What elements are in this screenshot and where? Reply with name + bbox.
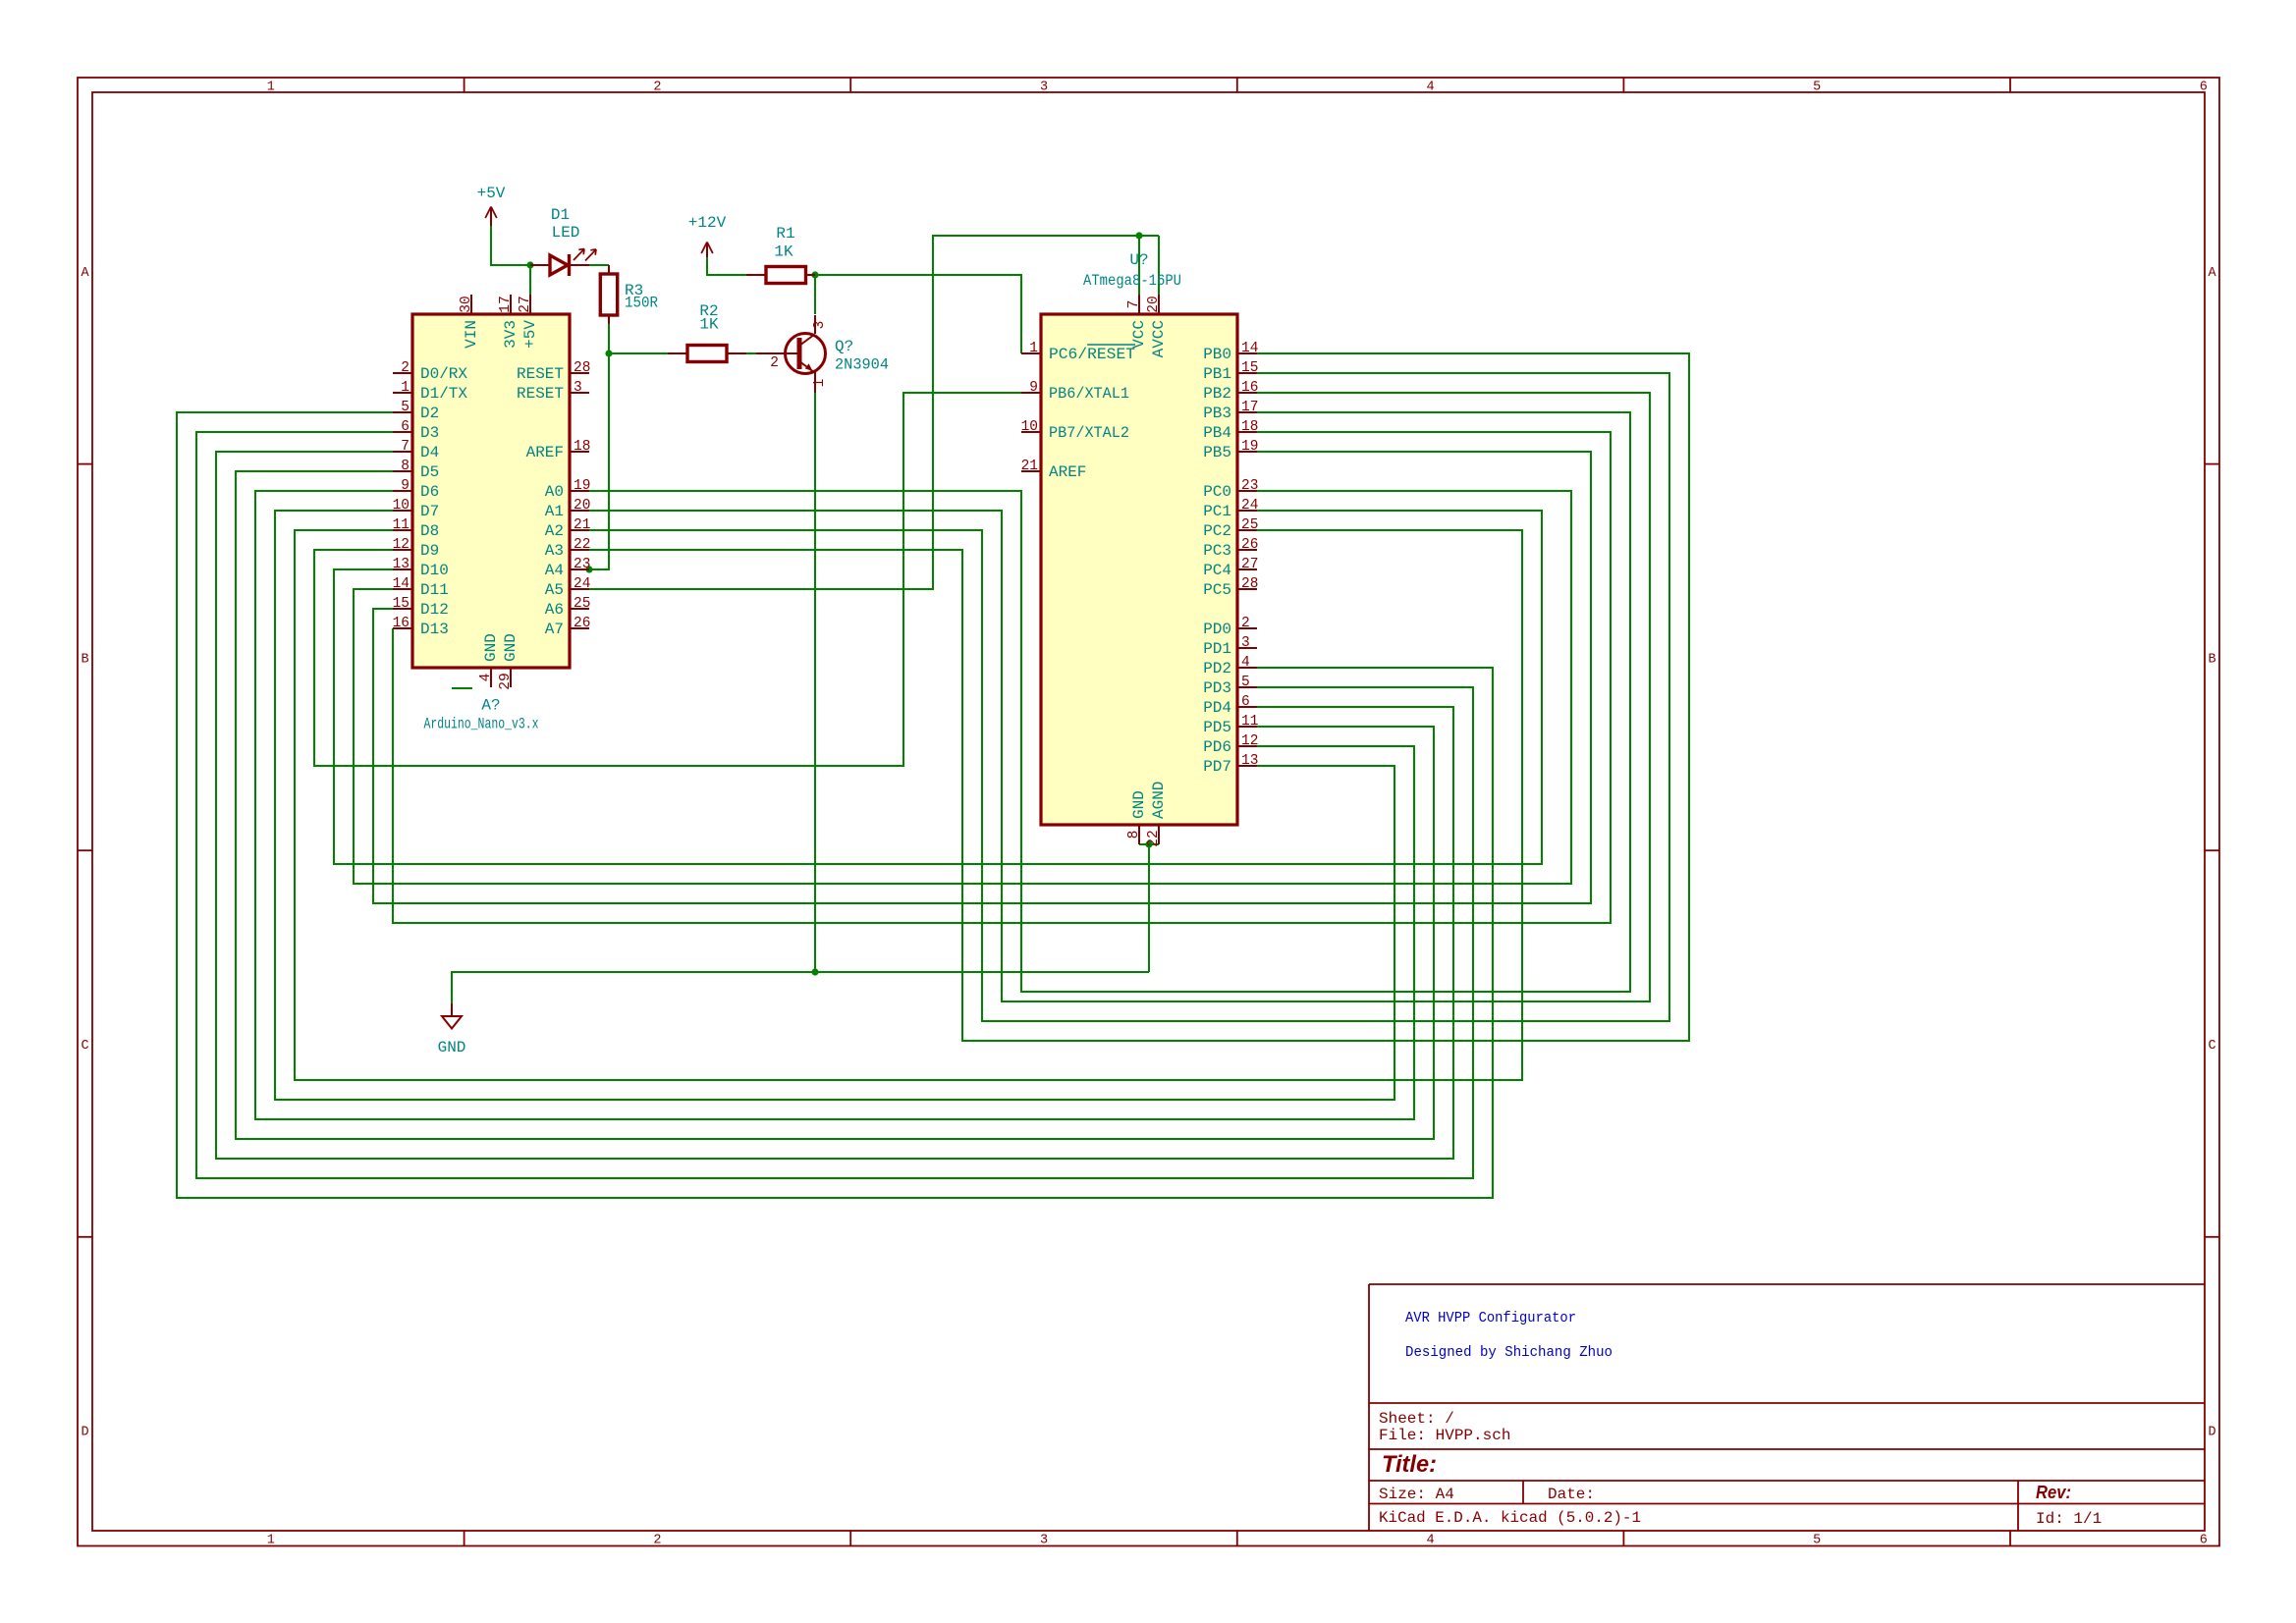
pin 17 3V3 [498, 295, 519, 349]
pin 17 PB3 [1203, 400, 1258, 422]
pin 3 RESET [517, 380, 589, 403]
svg-text:VCC: VCC [1130, 320, 1148, 349]
svg-text:27: 27 [1241, 557, 1258, 572]
wire junction to R2 left [609, 352, 668, 354]
svg-text:27: 27 [518, 296, 533, 312]
svg-text:Q?: Q? [835, 338, 853, 355]
svg-text:4: 4 [1427, 1534, 1435, 1548]
svg-text:PD5: PD5 [1203, 719, 1231, 736]
svg-text:24: 24 [574, 576, 590, 592]
svg-text:Rev:: Rev: [2036, 1483, 2071, 1502]
pin 25 A6 [545, 596, 591, 619]
pin 2 PD0 [1203, 616, 1257, 638]
svg-text:Arduino_Nano_v3.x: Arduino_Nano_v3.x [424, 716, 539, 733]
svg-text:13: 13 [1241, 753, 1258, 769]
wire net A3-PB0 [589, 353, 1689, 1041]
pin 4 PD2 [1203, 655, 1257, 677]
svg-text:+5V: +5V [521, 320, 539, 349]
svg-text:1: 1 [267, 1534, 275, 1548]
pin 18 PB4 [1203, 419, 1258, 442]
wire stub near Arduino GND [452, 687, 472, 689]
svg-text:D13: D13 [420, 621, 449, 638]
svg-text:A3: A3 [545, 542, 564, 560]
svg-text:PD7: PD7 [1203, 758, 1231, 776]
wire net D3-PD3 [196, 432, 1473, 1178]
svg-text:14: 14 [393, 576, 410, 592]
svg-text:PC2: PC2 [1203, 522, 1231, 540]
pin 18 AREF [526, 439, 591, 461]
svg-text:16: 16 [1241, 380, 1258, 396]
svg-text:B: B [81, 652, 88, 667]
svg-text:18: 18 [574, 439, 590, 455]
svg-text:ATmega8-16PU: ATmega8-16PU [1083, 272, 1181, 290]
svg-text:6: 6 [1241, 694, 1250, 710]
svg-text:Sheet: /: Sheet: / [1379, 1410, 1454, 1428]
svg-text:15: 15 [1241, 360, 1258, 376]
pin 1 PC6/RESET [1021, 341, 1135, 363]
svg-text:RESET: RESET [517, 385, 564, 403]
wire junction to pin 27 +5V [529, 265, 531, 295]
svg-text:3: 3 [812, 321, 828, 330]
svg-text:D2: D2 [420, 405, 439, 422]
wire R1 junction to PC6/RESET [815, 275, 1021, 353]
wire GND bus [452, 972, 1149, 1003]
wire net D10-PC1 [334, 511, 1542, 864]
pin 26 PC3 [1203, 537, 1258, 560]
svg-text:20: 20 [1146, 296, 1162, 312]
wire net A1-PB2 [589, 393, 1650, 1001]
pin 11 D8 [393, 517, 440, 540]
pin 20 AVCC [1146, 295, 1168, 357]
svg-text:2: 2 [653, 1534, 661, 1548]
svg-text:25: 25 [1241, 517, 1258, 533]
svg-text:21: 21 [574, 517, 590, 533]
wire net D2-PD2 [177, 412, 1493, 1198]
svg-text:D12: D12 [420, 601, 449, 619]
svg-text:22: 22 [1146, 830, 1162, 846]
pin 8 D5 [393, 459, 439, 481]
svg-text:A4: A4 [545, 562, 564, 579]
wire net D7-PD7 [275, 511, 1394, 1100]
svg-text:File: HVPP.sch: File: HVPP.sch [1379, 1427, 1510, 1444]
svg-text:PB7/XTAL2: PB7/XTAL2 [1049, 424, 1129, 442]
svg-text:D: D [2208, 1426, 2215, 1440]
junction A4 pin [585, 566, 592, 572]
pin 13 D10 [393, 557, 449, 579]
wire LED cathode to R3 top [589, 264, 609, 266]
pin 22 A3 [545, 537, 591, 560]
wire net D5-PD5 [236, 471, 1434, 1139]
svg-text:PC1: PC1 [1203, 503, 1231, 520]
junction R1/collector [811, 271, 818, 278]
pin 15 D12 [393, 596, 449, 619]
svg-text:1: 1 [401, 380, 410, 396]
svg-text:PD4: PD4 [1203, 699, 1231, 717]
pin 5 D2 [393, 400, 439, 422]
IC A? Arduino_Nano_v3.x [412, 314, 570, 668]
svg-text:11: 11 [1241, 714, 1258, 730]
svg-text:PC3: PC3 [1203, 542, 1231, 560]
svg-text:D: D [81, 1426, 88, 1440]
svg-text:AVR HVPP Configurator: AVR HVPP Configurator [1405, 1310, 1576, 1326]
svg-text:B: B [2208, 652, 2215, 667]
pin 9 PB6/XTAL1 [1021, 380, 1129, 403]
pin 19 PB5 [1203, 439, 1258, 461]
pin 5 PD3 [1203, 675, 1257, 697]
svg-text:A2: A2 [545, 522, 564, 540]
svg-text:29: 29 [498, 673, 514, 689]
pin 7 VCC [1126, 295, 1148, 349]
svg-text:150R: 150R [625, 295, 658, 312]
pin 12 PD6 [1203, 733, 1258, 756]
wire net D8-PC2 [295, 530, 1522, 1080]
pin 22 AGND [1146, 782, 1168, 847]
svg-text:D3: D3 [420, 424, 439, 442]
svg-text:PC4: PC4 [1203, 562, 1231, 579]
svg-text:A: A [2208, 266, 2216, 281]
pin 24 PC1 [1203, 498, 1258, 520]
svg-text:GND: GND [438, 1039, 466, 1056]
wire +5V to junction [491, 226, 530, 265]
svg-text:21: 21 [1021, 459, 1038, 474]
svg-text:7: 7 [1126, 300, 1142, 309]
svg-text:A?: A? [481, 697, 500, 715]
svg-text:4: 4 [478, 674, 494, 682]
pin 8 GND [1126, 790, 1148, 844]
svg-text:D1/TX: D1/TX [420, 385, 467, 403]
svg-text:PD6: PD6 [1203, 738, 1231, 756]
svg-text:A1: A1 [545, 503, 564, 520]
svg-text:A6: A6 [545, 601, 564, 619]
svg-text:5: 5 [1241, 675, 1250, 690]
LED D1 [530, 206, 596, 276]
svg-text:30: 30 [459, 296, 474, 312]
svg-text:A0: A0 [545, 483, 564, 501]
pin 20 A1 [545, 498, 591, 520]
svg-text:LED: LED [552, 224, 580, 242]
svg-text:Title:: Title: [1382, 1451, 1437, 1478]
svg-text:GND: GND [1130, 790, 1148, 819]
pin 27 +5V [518, 295, 539, 349]
svg-text:10: 10 [1021, 419, 1038, 435]
pin 7 D4 [393, 439, 439, 461]
svg-text:5: 5 [401, 400, 410, 415]
pin 26 A7 [545, 616, 591, 638]
svg-text:2: 2 [1241, 616, 1250, 631]
svg-text:PD3: PD3 [1203, 679, 1231, 697]
svg-text:Id: 1/1: Id: 1/1 [2036, 1510, 2102, 1528]
svg-text:D0/RX: D0/RX [420, 365, 467, 383]
svg-text:16: 16 [393, 616, 410, 631]
svg-text:2: 2 [770, 355, 779, 371]
svg-text:PB2: PB2 [1203, 385, 1231, 403]
transistor Q? 2N3904 [756, 315, 889, 393]
junction R3/R2/A4 [605, 350, 612, 356]
svg-text:D7: D7 [420, 503, 439, 520]
svg-text:PD1: PD1 [1203, 640, 1231, 658]
pin 2 D0/RX [393, 360, 467, 383]
svg-text:1: 1 [1029, 341, 1038, 356]
svg-text:D8: D8 [420, 522, 439, 540]
svg-text:AGND: AGND [1150, 782, 1168, 819]
wire Q emitter to GND bus [814, 393, 816, 972]
svg-text:26: 26 [1241, 537, 1258, 553]
pin 10 D7 [393, 498, 440, 520]
pin 15 PB1 [1203, 360, 1258, 383]
svg-text:1: 1 [812, 379, 828, 388]
svg-text:PB1: PB1 [1203, 365, 1231, 383]
wire VCC pin drop [1138, 236, 1140, 295]
pin 1 D1/TX [393, 380, 467, 403]
svg-text:D6: D6 [420, 483, 439, 501]
svg-text:11: 11 [393, 517, 410, 533]
svg-text:23: 23 [1241, 478, 1258, 494]
svg-text:1K: 1K [699, 316, 719, 334]
svg-text:23: 23 [574, 557, 590, 572]
pin 11 PD5 [1203, 714, 1258, 736]
resistor R2 1K [668, 302, 746, 362]
pin 14 PB0 [1203, 341, 1258, 363]
wire A5 to VCC AVCC [589, 236, 1159, 589]
wire net D13-PB4 [393, 432, 1611, 923]
pin 4 GND [478, 633, 500, 687]
svg-text:A7: A7 [545, 621, 564, 638]
svg-text:7: 7 [401, 439, 410, 455]
svg-text:6: 6 [401, 419, 410, 435]
svg-text:14: 14 [1241, 341, 1258, 356]
svg-text:28: 28 [574, 360, 590, 376]
svg-text:Designed by Shichang Zhuo: Designed by Shichang Zhuo [1405, 1344, 1613, 1361]
svg-text:VIN: VIN [463, 320, 480, 349]
svg-text:28: 28 [1241, 576, 1258, 592]
svg-text:U?: U? [1129, 251, 1148, 269]
wire +12V to R1 left [707, 257, 746, 275]
svg-text:PC6/RESET: PC6/RESET [1049, 346, 1135, 363]
svg-text:4: 4 [1427, 81, 1435, 95]
svg-text:3: 3 [1040, 81, 1048, 95]
wire net D4-PD4 [216, 452, 1453, 1159]
svg-text:+12V: +12V [688, 214, 727, 232]
svg-text:12: 12 [393, 537, 410, 553]
svg-text:13: 13 [393, 557, 410, 572]
svg-text:26: 26 [574, 616, 590, 631]
wire GND-AGND bridge [1139, 843, 1159, 845]
pin 12 D9 [393, 537, 440, 560]
wire junction to A4 pin [589, 353, 609, 569]
pin 29 GND [498, 633, 519, 690]
svg-text:5: 5 [1813, 1534, 1821, 1548]
svg-text:8: 8 [401, 459, 410, 474]
svg-text:3: 3 [574, 380, 582, 396]
ground symbol GND [438, 1003, 466, 1056]
wire net A0-PB3 [589, 412, 1630, 992]
svg-text:19: 19 [1241, 439, 1258, 455]
svg-text:2: 2 [653, 81, 661, 95]
svg-text:D9: D9 [420, 542, 439, 560]
svg-text:20: 20 [574, 498, 590, 514]
svg-text:KiCad E.D.A. kicad (5.0.2)-1: KiCad E.D.A. kicad (5.0.2)-1 [1379, 1509, 1641, 1527]
svg-text:D4: D4 [420, 444, 439, 461]
pin 30 VIN [459, 295, 480, 349]
svg-text:8: 8 [1126, 831, 1142, 839]
svg-text:15: 15 [393, 596, 410, 612]
junction +5V/LED [526, 261, 533, 268]
wire net D12-PB5 [373, 452, 1591, 903]
svg-text:12: 12 [1241, 733, 1258, 749]
wire junction to Q collector [814, 275, 816, 314]
wire net D9-PB6/XTAL1 [314, 393, 1021, 766]
pin 3 PD1 [1203, 635, 1257, 658]
pin 21 AREF [1021, 459, 1087, 481]
svg-text:D5: D5 [420, 463, 439, 481]
svg-text:17: 17 [1241, 400, 1258, 415]
resistor R3 150R [600, 265, 658, 324]
svg-text:3V3: 3V3 [502, 320, 519, 349]
wire AGND to GND bus [1148, 844, 1150, 972]
power symbol +5V [477, 185, 506, 226]
pin 21 A2 [545, 517, 591, 540]
resistor R1 1K [746, 225, 815, 284]
pin 25 PC2 [1203, 517, 1258, 540]
svg-text:AVCC: AVCC [1150, 320, 1168, 357]
svg-text:24: 24 [1241, 498, 1258, 514]
IC U? ATmega8-16PU [1041, 314, 1237, 825]
title block [1369, 1284, 2205, 1531]
svg-text:17: 17 [498, 296, 514, 312]
power symbol +12V [688, 214, 727, 257]
svg-text:Date:: Date: [1548, 1486, 1595, 1503]
svg-text:GND: GND [502, 633, 519, 662]
svg-text:D1: D1 [551, 206, 570, 224]
wire R2 right to Q base [746, 352, 758, 354]
svg-text:A5: A5 [545, 581, 564, 599]
wire net A2-PB1 [589, 373, 1669, 1021]
svg-text:25: 25 [574, 596, 590, 612]
pin 14 D11 [393, 576, 449, 599]
svg-text:D11: D11 [420, 581, 449, 599]
svg-text:+5V: +5V [477, 185, 506, 202]
svg-text:GND: GND [482, 633, 500, 662]
svg-text:1K: 1K [774, 243, 793, 261]
pin 16 PB2 [1203, 380, 1258, 403]
svg-text:PD0: PD0 [1203, 621, 1231, 638]
svg-text:2: 2 [401, 360, 410, 376]
svg-text:6: 6 [2200, 81, 2208, 95]
pin 19 A0 [545, 478, 591, 501]
junction GND/AGND [1145, 840, 1152, 847]
svg-text:PD2: PD2 [1203, 660, 1231, 677]
svg-text:C: C [81, 1039, 88, 1054]
svg-text:PB5: PB5 [1203, 444, 1231, 461]
svg-text:19: 19 [574, 478, 590, 494]
wire R3 bottom to junction [608, 324, 610, 353]
svg-text:C: C [2208, 1039, 2215, 1054]
pin 28 RESET [517, 360, 590, 383]
pin 27 PC4 [1203, 557, 1258, 579]
pin 10 PB7/XTAL2 [1021, 419, 1129, 442]
svg-text:4: 4 [1241, 655, 1250, 671]
wire net D6-PD6 [255, 491, 1414, 1119]
pin 6 PD4 [1203, 694, 1257, 717]
svg-text:Size: A4: Size: A4 [1379, 1486, 1454, 1503]
svg-text:AREF: AREF [526, 444, 564, 461]
svg-text:D10: D10 [420, 562, 449, 579]
svg-text:9: 9 [1029, 380, 1038, 396]
wire AVCC pin drop [1158, 236, 1160, 295]
svg-text:9: 9 [401, 478, 410, 494]
svg-text:PB6/XTAL1: PB6/XTAL1 [1049, 385, 1129, 403]
pin 13 PD7 [1203, 753, 1258, 776]
svg-text:R1: R1 [776, 225, 794, 243]
pin 23 PC0 [1203, 478, 1258, 501]
svg-text:22: 22 [574, 537, 590, 553]
svg-text:2N3904: 2N3904 [835, 356, 889, 374]
svg-text:5: 5 [1813, 81, 1821, 95]
svg-text:AREF: AREF [1049, 463, 1086, 481]
svg-text:3: 3 [1241, 635, 1250, 651]
svg-text:PC0: PC0 [1203, 483, 1231, 501]
pin 6 D3 [393, 419, 439, 442]
svg-text:RESET: RESET [517, 365, 564, 383]
svg-text:18: 18 [1241, 419, 1258, 435]
pin 16 D13 [393, 616, 449, 638]
svg-text:PB0: PB0 [1203, 346, 1231, 363]
svg-text:1: 1 [267, 81, 275, 95]
junction emitter/GND bus [811, 968, 818, 975]
svg-text:10: 10 [393, 498, 410, 514]
junction VCC [1135, 232, 1142, 239]
svg-text:PC5: PC5 [1203, 581, 1231, 599]
pin 24 A5 [545, 576, 591, 599]
svg-text:PB3: PB3 [1203, 405, 1231, 422]
pin 28 PC5 [1203, 576, 1258, 599]
pin 9 D6 [393, 478, 439, 501]
wire net D11-PC0 [354, 491, 1571, 884]
svg-text:3: 3 [1040, 1534, 1048, 1548]
svg-text:A: A [81, 266, 89, 281]
svg-text:6: 6 [2200, 1534, 2208, 1548]
pin 23 A4 [545, 557, 591, 579]
svg-text:PB4: PB4 [1203, 424, 1231, 442]
